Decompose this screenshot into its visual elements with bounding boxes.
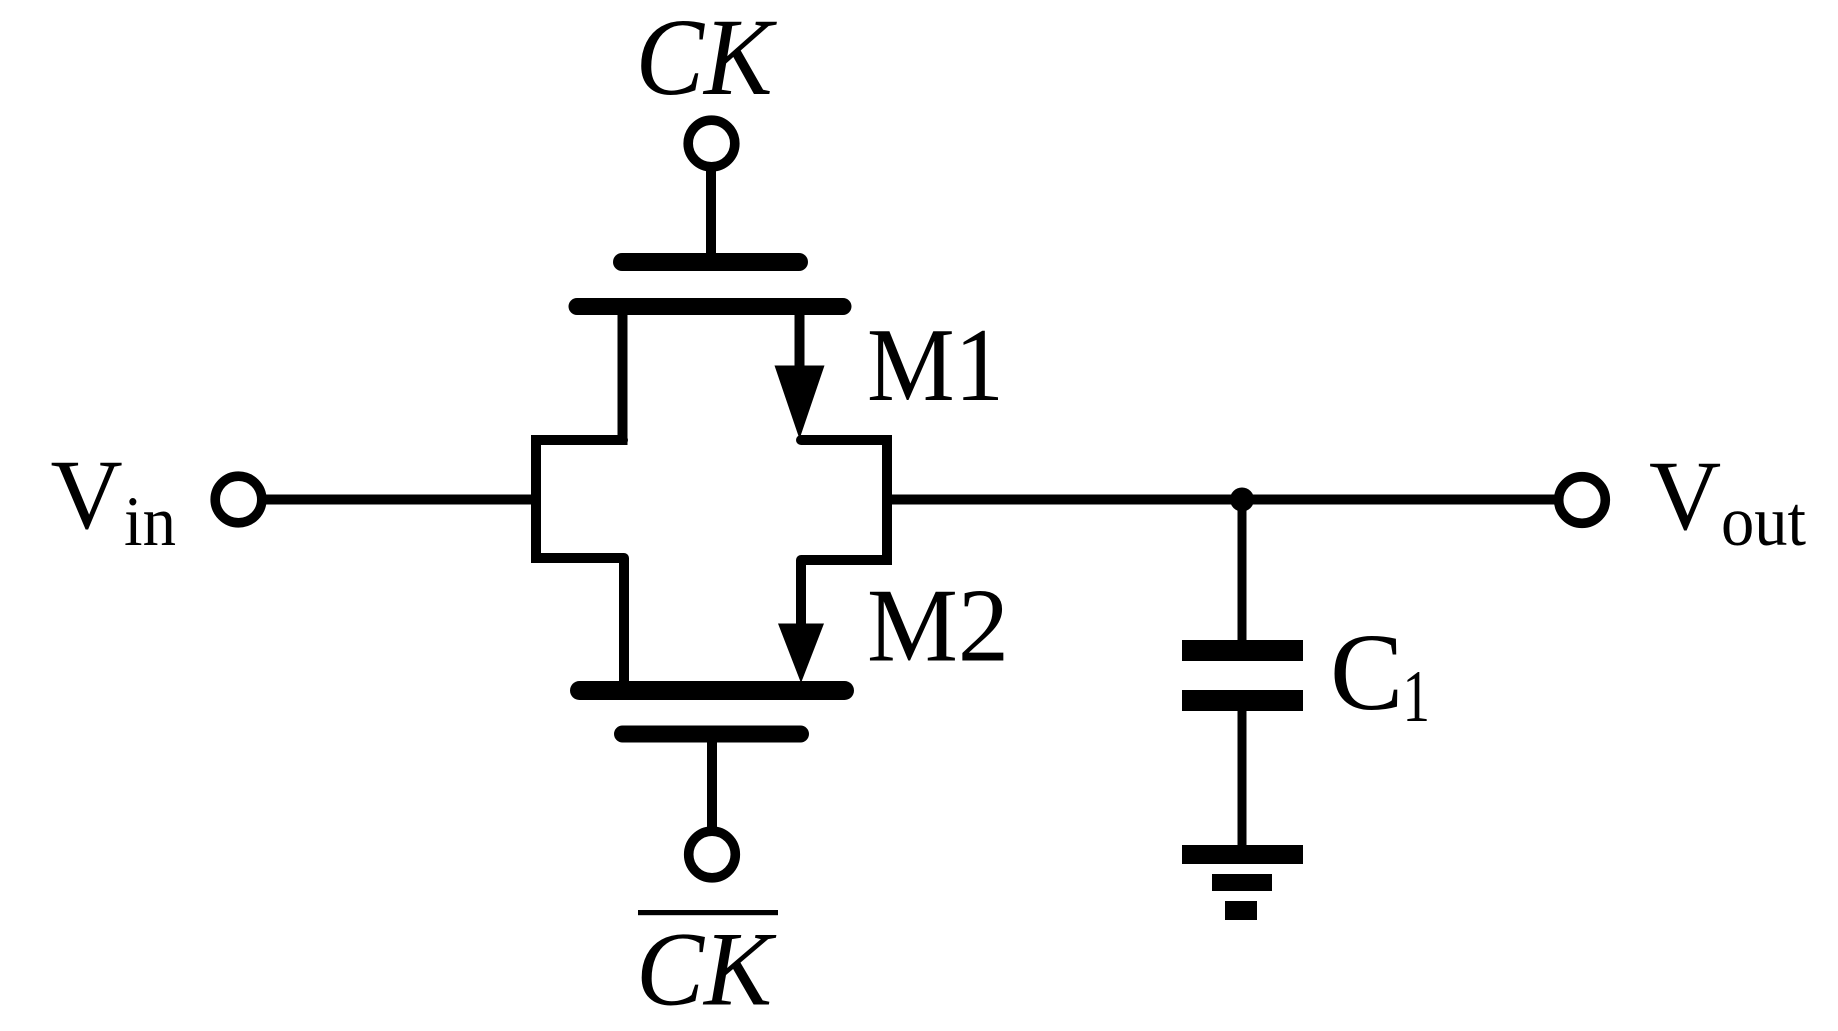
transistor M1 gate bar — [622, 253, 799, 271]
svg-text:M2: M2 — [867, 567, 1009, 684]
wire M2 gate to CKbar terminal — [707, 742, 717, 828]
terminal Vout — [1559, 477, 1606, 524]
svg-text:V: V — [1649, 440, 1721, 551]
transistor M1 source leg — [618, 306, 628, 445]
terminal CK — [688, 120, 735, 167]
svg-text:1: 1 — [1403, 656, 1431, 738]
capacitor C1 top plate — [1182, 640, 1303, 661]
wire transmission gate to Vout terminal — [887, 495, 1559, 505]
svg-text:V: V — [51, 439, 123, 550]
wire output node to capacitor C1 — [1238, 500, 1247, 645]
net CKbar overline — [638, 910, 778, 915]
wire right bracket (Vout node) — [801, 440, 887, 560]
svg-text:in: in — [124, 483, 176, 561]
ground bar 3 — [1225, 901, 1257, 920]
transistor M2 drain leg — [796, 560, 806, 628]
ground bar 2 — [1212, 874, 1272, 891]
transistor M2 source leg — [619, 558, 629, 682]
terminal CKbar — [689, 831, 736, 878]
junction output node — [1230, 488, 1254, 512]
transistor M1 channel bar — [577, 298, 843, 315]
svg-text:CK: CK — [636, 911, 777, 1028]
transistor M2 gate bar — [623, 726, 801, 743]
svg-text:M1: M1 — [867, 306, 1004, 423]
transistor M2 drain arrow — [778, 624, 824, 684]
svg-text:CK: CK — [636, 0, 778, 118]
wire capacitor C1 to ground — [1238, 706, 1247, 850]
capacitor C1 bottom plate — [1182, 690, 1303, 711]
transistor M2 channel bar — [580, 681, 845, 700]
transistor M1 drain arrow — [775, 366, 825, 440]
ground bar 1 — [1182, 845, 1303, 864]
terminal Vin — [215, 476, 262, 523]
svg-text:C: C — [1330, 611, 1403, 733]
wire left bracket (Vin node) — [536, 440, 624, 558]
svg-text:out: out — [1721, 483, 1806, 561]
transistor M1 drain leg — [795, 306, 805, 372]
wire Vin terminal to transmission gate — [261, 495, 536, 505]
wire CK terminal to M1 gate — [706, 166, 716, 262]
